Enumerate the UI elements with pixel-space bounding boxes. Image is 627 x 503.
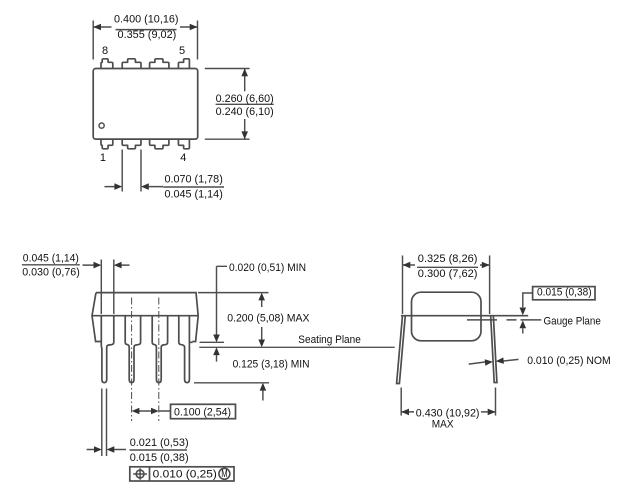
svg-text:0.010 (0,25): 0.010 (0,25) <box>153 469 217 481</box>
0.015 up arrow <box>520 320 527 328</box>
parting line <box>401 315 528 317</box>
dimension 0.400/0.355 line <box>93 26 197 28</box>
pin 7 tab (top) <box>122 59 141 69</box>
dimension 0.260/0.240 line <box>244 69 246 140</box>
dimension 0.021/0.015 extension lines <box>102 389 107 457</box>
0.010 NOM arrow stems <box>469 359 519 364</box>
0.260 up arrow <box>241 69 248 77</box>
fraction bar 0.045 <box>22 264 80 266</box>
package bottom extension line <box>200 341 225 343</box>
0.260 down arrow <box>241 131 248 139</box>
0.100 right arrow <box>151 408 159 415</box>
body top extension line <box>198 292 269 294</box>
pin 6 tab (top) <box>150 59 169 69</box>
dimension 0.430 extension lines <box>401 388 495 416</box>
dimension 0.430 line <box>401 411 495 413</box>
0.325 right arrow <box>482 262 490 269</box>
0.100 left arrow <box>132 408 140 415</box>
0.400 right arrow <box>190 24 198 31</box>
lead 2 (side view) <box>125 316 140 383</box>
svg-text:0.400 (10,16): 0.400 (10,16) <box>114 14 179 26</box>
0.070 arrow pointing right <box>114 183 122 190</box>
dimension 0.045/0.030 extension lines <box>101 260 114 315</box>
fraction bar 0.070 <box>163 186 224 188</box>
fraction bar 0.021 <box>130 449 188 451</box>
dimension 0.070/0.045 extension lines <box>122 150 141 192</box>
svg-text:MAX: MAX <box>432 418 454 430</box>
centerline pin 3 <box>158 298 160 422</box>
pin 1 index dot <box>99 123 104 128</box>
seating plane line <box>199 346 394 348</box>
svg-text:0.045 (1,14): 0.045 (1,14) <box>23 252 79 264</box>
dimension 0.100 line <box>139 410 171 412</box>
dimension 0.070/0.045 arrow stems <box>105 186 164 188</box>
right lead (end view) <box>491 317 497 383</box>
dimension 0.021/0.015 arrow stems <box>87 449 126 451</box>
svg-text:0.070 (1,78): 0.070 (1,78) <box>165 174 223 186</box>
0.125 arrow stem <box>262 390 264 401</box>
pin 4 tab (bottom-right) <box>178 139 189 149</box>
0.021 arrow pointing right <box>94 446 102 453</box>
position symbol <box>136 470 144 478</box>
0.015 leader <box>523 293 533 307</box>
svg-text:0.260 (6,60): 0.260 (6,60) <box>216 93 274 105</box>
pin 1 tab (bottom-left) <box>101 139 113 149</box>
svg-text:0.355 (9,02): 0.355 (9,02) <box>118 29 177 41</box>
svg-text:0.240 (6,10): 0.240 (6,10) <box>216 106 274 118</box>
svg-text:0.045 (1,14): 0.045 (1,14) <box>165 188 223 200</box>
svg-text:0.300 (7,62): 0.300 (7,62) <box>418 268 478 280</box>
pin 3 tab (bottom) <box>150 139 169 149</box>
svg-text:0.325 (8,26): 0.325 (8,26) <box>418 253 478 265</box>
package body (side view) <box>92 293 198 342</box>
left lead (end view) <box>397 317 406 384</box>
svg-text:Gauge Plane: Gauge Plane <box>544 315 601 327</box>
svg-text:0.200 (5,08) MAX: 0.200 (5,08) MAX <box>227 312 310 324</box>
package body (end view) <box>412 292 482 341</box>
0.430 left arrow <box>401 409 409 416</box>
gauge plane line <box>467 319 541 321</box>
pin 5 tab (top-right) <box>178 59 189 69</box>
fraction bar 0.260 <box>216 103 274 105</box>
svg-text:0.015 (0,38): 0.015 (0,38) <box>537 286 592 298</box>
dimension 0.200 line <box>261 300 263 341</box>
svg-text:0.125 (3,18) MIN: 0.125 (3,18) MIN <box>233 358 310 370</box>
svg-text:1: 1 <box>100 152 106 164</box>
0.430 right arrow <box>488 409 496 416</box>
svg-text:4: 4 <box>180 152 186 164</box>
dimension 0.325/0.300 extension lines <box>403 256 490 315</box>
M circle <box>219 468 230 479</box>
lead 4 (side view) <box>179 316 193 383</box>
0.045 arrow pointing left <box>114 262 122 269</box>
dimension 0.260/0.240 extension lines <box>205 69 250 140</box>
svg-text:0.021 (0,53): 0.021 (0,53) <box>130 437 189 449</box>
svg-text:Seating Plane: Seating Plane <box>298 334 361 346</box>
package body (top view) <box>93 69 198 140</box>
0.100 box <box>171 404 236 418</box>
svg-text:0.100 (2,54): 0.100 (2,54) <box>174 406 231 418</box>
0.021 arrow pointing left <box>107 446 115 453</box>
0.010 arrow pointing right <box>485 359 493 366</box>
0.015 box <box>533 287 595 300</box>
centerline pin 2 <box>131 298 133 422</box>
0.125 up arrow <box>260 383 267 391</box>
feature control frame box <box>130 467 234 481</box>
0.200 down arrow <box>258 340 265 348</box>
pin 8 tab (top-left) <box>101 59 113 69</box>
lead 3 (side view) <box>152 316 167 383</box>
0.325 left arrow <box>403 262 411 269</box>
0.015 down arrow <box>520 308 527 316</box>
fraction bar 0.325 <box>417 266 478 268</box>
0.015 lower arrow stem <box>522 328 524 333</box>
0.400 left arrow <box>93 24 101 31</box>
svg-text:M: M <box>221 468 227 480</box>
0.020 up arrow <box>213 347 220 355</box>
dimension 0.020 leader <box>217 266 228 335</box>
pin 2 tab (bottom) <box>122 139 141 149</box>
dimension 0.045/0.030 arrow stems <box>83 264 130 266</box>
0.070 arrow pointing left <box>141 183 149 190</box>
dimension 0.400/0.355 extension lines <box>93 21 197 60</box>
svg-text:0.010 (0,25) NOM: 0.010 (0,25) NOM <box>527 355 611 367</box>
fraction bar 0.400 <box>116 29 177 31</box>
0.010 arrow pointing left <box>496 357 504 364</box>
0.045 arrow pointing right <box>94 262 102 269</box>
svg-text:0.020 (0,51) MIN: 0.020 (0,51) MIN <box>229 262 306 274</box>
svg-text:0.030 (0,76): 0.030 (0,76) <box>22 266 80 278</box>
0.020 down arrow <box>213 335 220 343</box>
svg-text:8: 8 <box>102 45 108 57</box>
lead 1 (side view) <box>101 316 114 383</box>
svg-text:5: 5 <box>179 45 185 57</box>
0.020 lower arrow stem <box>216 355 218 362</box>
svg-text:0.015 (0,38): 0.015 (0,38) <box>130 452 189 464</box>
lead tip extension line <box>194 382 269 384</box>
0.200 up arrow <box>258 293 265 301</box>
dimension 0.325/0.300 line <box>403 264 490 266</box>
